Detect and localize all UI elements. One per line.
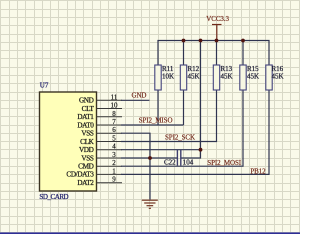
svg-text:10K: 10K — [162, 72, 174, 80]
svg-text:45K: 45K — [221, 72, 233, 80]
svg-text:U7: U7 — [40, 82, 49, 90]
svg-text:45K: 45K — [272, 72, 284, 80]
svg-text:9: 9 — [112, 176, 116, 184]
svg-text:45K: 45K — [188, 72, 200, 80]
svg-text:VCC3.3: VCC3.3 — [206, 15, 229, 23]
svg-text:CD/DAT3: CD/DAT3 — [66, 171, 94, 179]
svg-text:GND: GND — [132, 91, 147, 99]
svg-text:C22: C22 — [164, 159, 176, 167]
svg-text:10: 10 — [111, 102, 119, 110]
svg-text:DAT0: DAT0 — [77, 121, 94, 129]
svg-text:CLK: CLK — [80, 138, 94, 146]
svg-text:11: 11 — [111, 93, 118, 101]
svg-text:1: 1 — [112, 167, 116, 175]
svg-text:DAT1: DAT1 — [77, 113, 94, 121]
svg-text:PB12: PB12 — [250, 167, 266, 175]
svg-text:SD_CARD: SD_CARD — [39, 193, 68, 201]
svg-text:GND: GND — [79, 97, 94, 105]
svg-text:45K: 45K — [247, 72, 259, 80]
svg-text:VSS: VSS — [81, 154, 93, 162]
svg-text:3: 3 — [112, 151, 116, 159]
svg-text:VDD: VDD — [79, 146, 94, 154]
svg-text:DAT2: DAT2 — [77, 179, 94, 187]
svg-text:SPI2_MISO: SPI2_MISO — [139, 117, 173, 125]
svg-text:4: 4 — [112, 143, 116, 151]
svg-text:VSS: VSS — [81, 130, 93, 138]
svg-text:SPI2_MOSI: SPI2_MOSI — [207, 159, 241, 167]
svg-text:5: 5 — [112, 135, 116, 143]
svg-text:2: 2 — [112, 159, 116, 167]
svg-text:104: 104 — [183, 159, 194, 167]
svg-text:7: 7 — [112, 118, 116, 126]
svg-text:6: 6 — [112, 126, 116, 134]
svg-text:CMD: CMD — [78, 163, 93, 171]
svg-text:8: 8 — [112, 110, 116, 118]
svg-text:CLT: CLT — [82, 105, 95, 113]
svg-text:SPI2_SCK: SPI2_SCK — [165, 133, 195, 141]
